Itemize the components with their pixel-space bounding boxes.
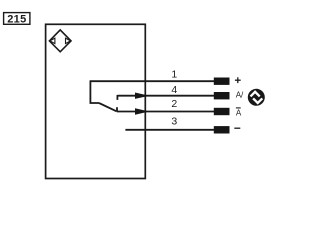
svg-text:1: 1 (171, 68, 177, 80)
svg-text:2: 2 (171, 98, 177, 110)
svg-text:4: 4 (171, 84, 177, 96)
svg-text:215: 215 (7, 13, 26, 25)
svg-text:A/: A/ (236, 91, 244, 100)
svg-text:A: A (236, 109, 242, 118)
svg-text:3: 3 (171, 115, 177, 127)
